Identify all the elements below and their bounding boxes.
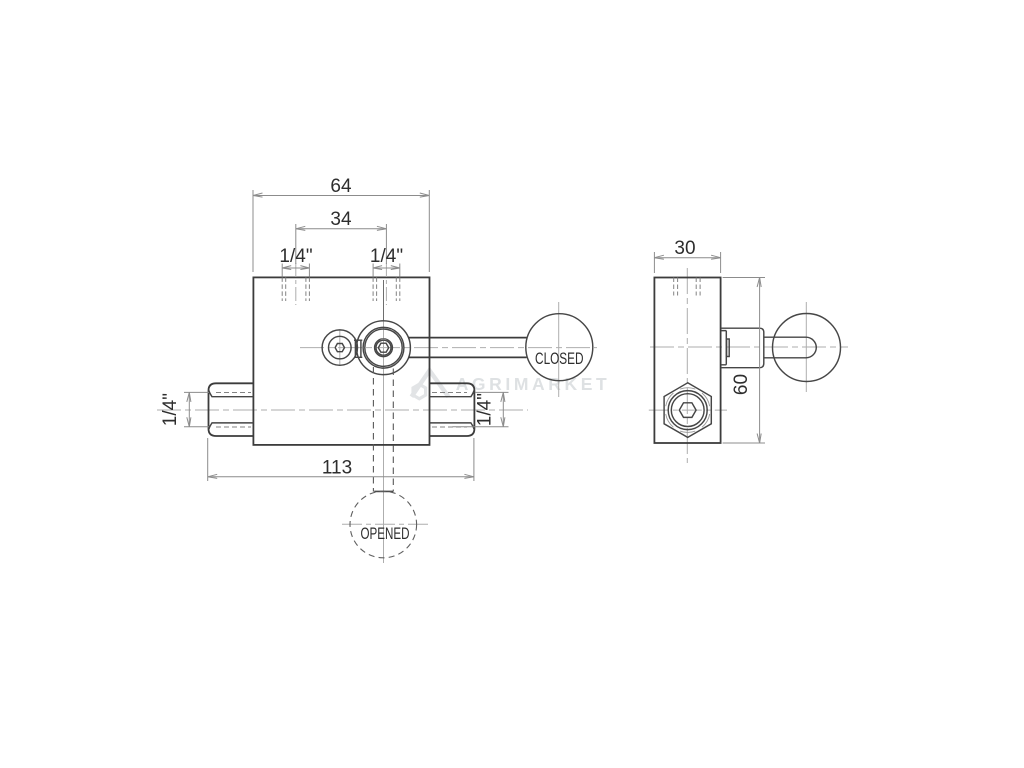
dim 34 <box>296 209 387 264</box>
top right port centerline <box>385 263 387 305</box>
drill line from right port to valve <box>383 280 385 321</box>
dim 1/4 left side rotated <box>160 392 209 426</box>
side hex plug outline <box>664 383 711 438</box>
svg-text:34: 34 <box>330 209 352 230</box>
top left port thread dashes <box>282 277 309 301</box>
dim 30 <box>654 238 720 273</box>
stem rod <box>764 337 816 358</box>
dim 1/4 top left <box>279 246 312 277</box>
valve nut circle inner <box>376 340 391 355</box>
svg-text:60: 60 <box>731 374 752 395</box>
pivot small circle C1 middle <box>329 336 352 359</box>
centerline horizontal opened ball <box>342 523 428 525</box>
pivot small circle C1 outer <box>322 330 357 365</box>
side plug circle inner <box>671 394 704 427</box>
centerline vertical side ball <box>805 302 807 392</box>
centerline horizontal port axis front view <box>157 409 528 411</box>
closed ball <box>526 314 593 381</box>
svg-text:1/4": 1/4" <box>370 246 403 267</box>
svg-text:OPENED: OPENED <box>361 524 410 543</box>
top left port centerline <box>295 263 297 305</box>
pivot C1 hex socket <box>335 344 344 352</box>
link piece between circles <box>354 340 362 357</box>
body front view <box>253 277 429 445</box>
watermark logo triangle <box>412 371 449 399</box>
dim 64 <box>253 176 429 272</box>
valve flange ring inner <box>365 329 402 366</box>
dim 60 <box>723 278 765 444</box>
stem plate line <box>721 331 726 365</box>
valve outer circle <box>357 321 411 375</box>
svg-text:1/4": 1/4" <box>279 246 312 267</box>
top right port thread dashes <box>373 277 400 301</box>
centerline horizontal side plug axis <box>649 409 727 411</box>
opened ball dashed <box>350 491 417 558</box>
svg-text:1/4": 1/4" <box>475 393 496 426</box>
svg-text:30: 30 <box>674 238 695 259</box>
lever arm <box>408 338 526 358</box>
centerline vertical side view <box>686 268 688 463</box>
side top port thread dashes <box>674 278 700 296</box>
centerline vertical closed ball <box>558 302 560 397</box>
side hex plug chamfer arcs <box>666 388 710 433</box>
centerline vertical pivot C1 <box>339 330 341 366</box>
centerline horizontal valve axis front view <box>300 347 597 349</box>
valve flange ring outer <box>363 327 404 368</box>
body side view <box>654 278 720 444</box>
dim 1/4 top right <box>370 246 403 277</box>
centerline vertical valve axis front view <box>383 300 385 563</box>
stem tab <box>727 339 730 357</box>
side plug circle outer <box>668 391 707 430</box>
svg-text:1/4": 1/4" <box>160 393 181 426</box>
side plug hex socket <box>679 403 696 418</box>
valve nut circle outer <box>375 339 393 357</box>
svg-text:AGRIMARKET: AGRIMARKET <box>456 374 611 394</box>
opened lever dashed lines <box>372 367 374 492</box>
stem block side view <box>721 328 764 368</box>
side ball <box>773 314 841 382</box>
valve nut hex socket <box>378 343 388 352</box>
right hex thread dashes <box>432 392 467 394</box>
opened lever end cap <box>374 490 393 492</box>
centerline horizontal side stem axis <box>650 346 848 348</box>
valve nut top cap mark <box>380 338 388 341</box>
dim 113 <box>208 438 474 481</box>
left hex thread dashes <box>216 392 251 394</box>
svg-text:64: 64 <box>330 176 352 197</box>
right hex fitting <box>430 383 475 436</box>
svg-text:CLOSED: CLOSED <box>535 350 584 368</box>
dim 1/4 right side rotated <box>452 392 508 426</box>
svg-text:113: 113 <box>322 457 352 478</box>
left hex fitting <box>209 383 254 436</box>
